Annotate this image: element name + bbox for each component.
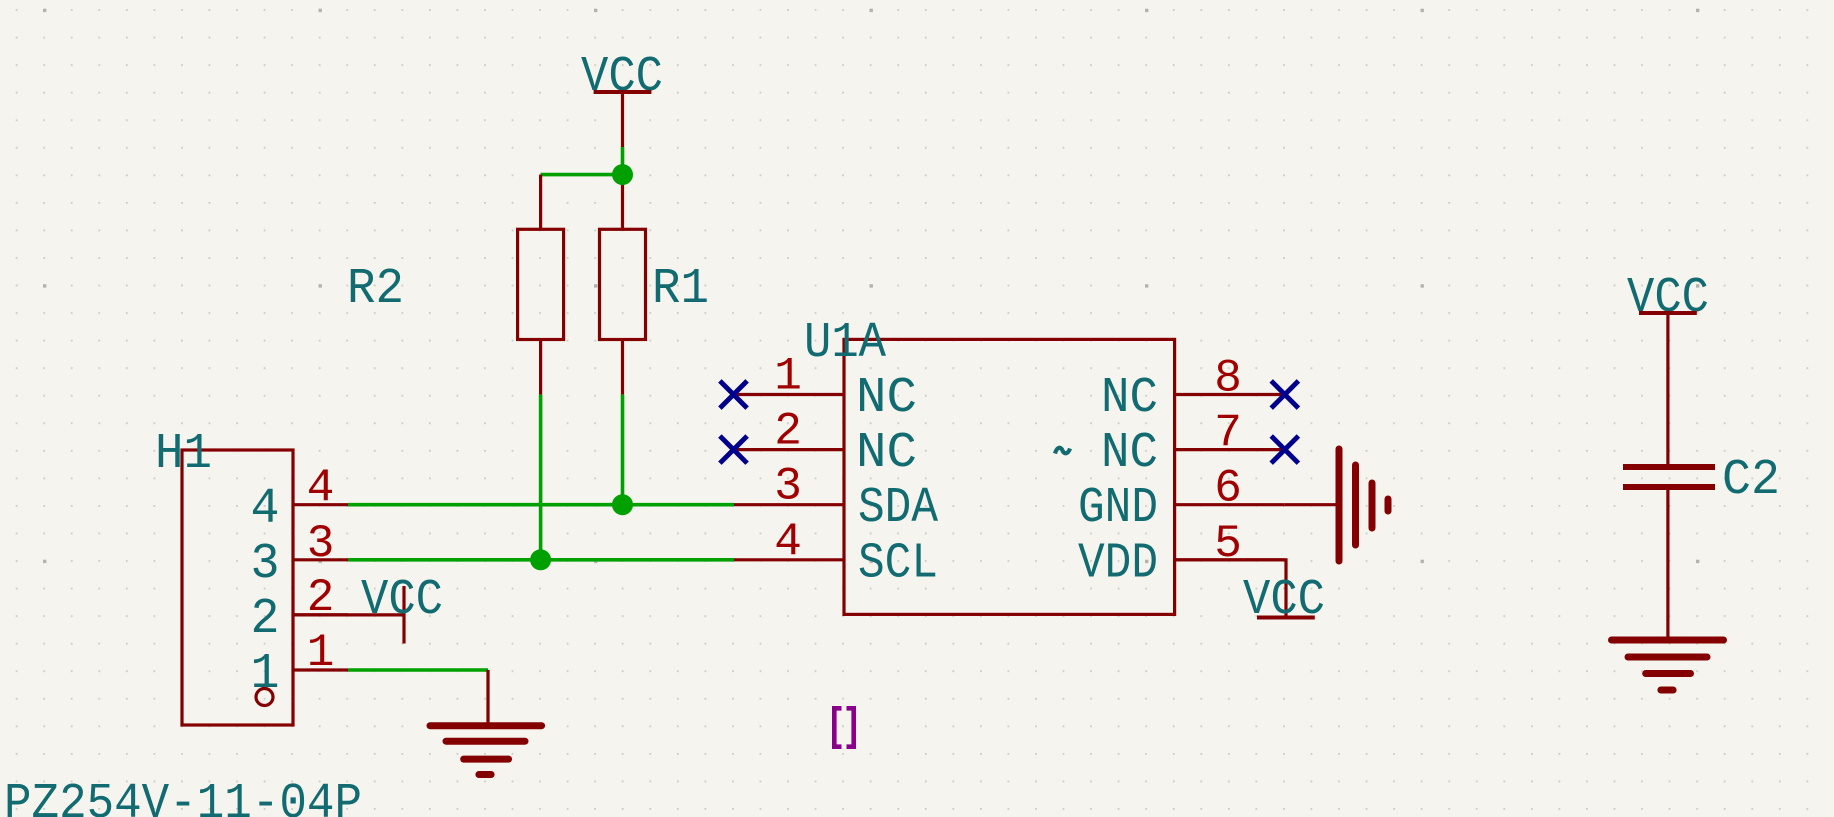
- power VCC (H1 pin 2): [361, 572, 443, 644]
- svg-text:6: 6: [1214, 463, 1242, 515]
- ground (below H1): [430, 726, 542, 775]
- svg-text:NC: NC: [856, 370, 917, 427]
- wire: [621, 147, 625, 175]
- wire: [539, 395, 543, 560]
- svg-text:GND: GND: [1078, 480, 1158, 537]
- no-connect pin 2: [720, 436, 747, 463]
- power VCC (U1A pin 5): [1243, 572, 1325, 629]
- svg-text:2: 2: [251, 591, 280, 648]
- no-connect pin 8: [1271, 381, 1298, 408]
- svg-text:4: 4: [774, 516, 802, 568]
- svg-text:R2: R2: [347, 261, 404, 318]
- wire: [541, 173, 623, 177]
- svg-text:1: 1: [251, 646, 280, 703]
- svg-text:VCC: VCC: [1243, 572, 1325, 629]
- wire (H1 pin1 to GND): [348, 668, 488, 672]
- connector H1: [182, 450, 348, 725]
- text []: [834, 708, 853, 746]
- svg-text:VDD: VDD: [1078, 535, 1158, 592]
- no-connect pin 1: [720, 381, 747, 408]
- svg-text:C2: C2: [1722, 452, 1780, 509]
- wire: [486, 670, 489, 723]
- tilde (pin 7): [1055, 448, 1070, 454]
- capacitor C2: [1623, 467, 1715, 487]
- resistor R2: [518, 175, 564, 395]
- svg-text:1: 1: [307, 627, 335, 679]
- wire (pin 5 to VCC): [1175, 560, 1286, 618]
- svg-text:H1: H1: [155, 426, 212, 483]
- svg-text:SCL: SCL: [858, 535, 938, 592]
- svg-text:1: 1: [774, 351, 802, 403]
- svg-text:8: 8: [1214, 353, 1242, 405]
- power VCC (C2): [1627, 270, 1709, 327]
- svg-text:3: 3: [251, 536, 280, 593]
- svg-text:NC: NC: [1101, 425, 1158, 482]
- svg-text:7: 7: [1214, 408, 1242, 460]
- svg-text:U1A: U1A: [804, 315, 886, 372]
- power VCC (top): [581, 49, 663, 147]
- junction: [612, 494, 633, 515]
- ic U1A: [734, 339, 1285, 614]
- svg-text:4: 4: [307, 462, 335, 514]
- junction: [530, 549, 551, 570]
- svg-text:VCC: VCC: [361, 572, 443, 629]
- wire: [1666, 313, 1669, 464]
- svg-text:NC: NC: [1101, 370, 1158, 427]
- svg-text:PZ254V-11-04P: PZ254V-11-04P: [4, 776, 362, 817]
- svg-text:R1: R1: [652, 261, 709, 318]
- resistor R1: [600, 175, 646, 395]
- wire (H1 pin2 to VCC): [293, 613, 404, 616]
- svg-text:3: 3: [307, 518, 335, 570]
- svg-text:SDA: SDA: [858, 480, 938, 537]
- junction: [612, 164, 633, 185]
- wire: [621, 395, 625, 505]
- wire SCL net: [348, 558, 734, 562]
- wire SDA net: [348, 503, 734, 507]
- svg-text:2: 2: [774, 406, 802, 458]
- ground (right of U1A, rotated): [1339, 449, 1388, 561]
- svg-text:3: 3: [774, 461, 802, 513]
- ground (below C2): [1612, 640, 1724, 690]
- no-connect pin 7: [1271, 436, 1298, 463]
- svg-text:4: 4: [251, 481, 280, 538]
- wire (pin 6 to ground): [1285, 503, 1336, 506]
- svg-text:5: 5: [1214, 518, 1242, 570]
- svg-text:NC: NC: [856, 425, 917, 482]
- wire: [1666, 490, 1669, 639]
